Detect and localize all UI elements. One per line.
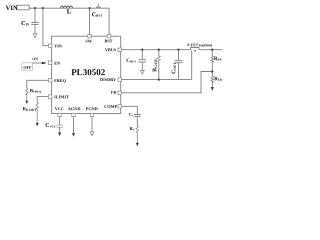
EN input arrow	[42, 62, 47, 65]
ground CBUS hollow arrow	[140, 70, 144, 74]
capacitor CC	[134, 114, 141, 116]
resistor RFB2	[211, 76, 214, 83]
pin VIN	[49, 44, 52, 47]
junction dots	[34, 7, 214, 81]
pin AGND	[72, 113, 75, 116]
capacitor CIN	[31, 21, 38, 23]
wire AGND branch	[73, 117, 75, 134]
ground PGND hollow arrow	[90, 132, 94, 136]
wire top rail	[29, 8, 109, 34]
ground CVCC filled arrow	[58, 133, 61, 137]
pin SW	[88, 35, 91, 38]
wire gate riser	[191, 50, 193, 79]
VIN terminal tag	[16, 5, 29, 10]
svg-text:DISDRV: DISDRV	[100, 77, 117, 82]
pin COMP	[118, 105, 121, 108]
svg-text:PL30502: PL30502	[71, 67, 106, 77]
svg-text:ILIMIT: ILIMIT	[54, 94, 69, 99]
svg-text:ON: ON	[32, 57, 38, 61]
wire CIN branch	[34, 8, 36, 22]
ground RFB2 filled arrow	[211, 87, 214, 91]
wire VIN pin branch	[43, 8, 49, 46]
svg-text:CVCC: CVCC	[45, 123, 56, 129]
svg-text:CBUS: CBUS	[126, 58, 136, 64]
wire FREQ	[27, 80, 49, 88]
ground RFREQ filled arrow	[25, 101, 28, 104]
svg-text:VIN: VIN	[6, 5, 18, 12]
pin FB	[118, 91, 121, 94]
wire DISDRV line	[121, 79, 191, 81]
OFF terminal box	[22, 63, 33, 70]
resistor RFREQ	[26, 88, 28, 100]
capacitor CBUS	[139, 59, 147, 61]
pin VBUS	[118, 48, 121, 51]
wire EN	[32, 62, 41, 64]
pin ILIMIT	[49, 95, 52, 98]
pin squares	[49, 35, 122, 117]
svg-text:SW: SW	[85, 38, 92, 43]
resistor RFB1	[211, 56, 214, 63]
ground RILIMIT filled arrow	[36, 123, 39, 127]
wire ILIMIT	[37, 97, 48, 103]
wire COUT branch	[178, 50, 180, 60]
ground RC filled arrow	[136, 143, 139, 147]
svg-text:RILIMIT: RILIMIT	[23, 106, 37, 112]
svg-text:VIN: VIN	[54, 43, 63, 48]
pin BST	[107, 35, 110, 38]
svg-text:COUT: COUT	[171, 62, 177, 74]
svg-text:RGATE: RGATE	[152, 58, 158, 72]
svg-text:EN: EN	[54, 60, 61, 65]
capacitor COUT	[175, 60, 183, 62]
svg-text:BST: BST	[104, 38, 112, 43]
svg-text:COMP: COMP	[104, 104, 117, 109]
wire RGATE branch	[158, 50, 160, 56]
wire SW drop	[89, 8, 91, 34]
wire COMP trace	[121, 106, 137, 114]
node COUT top	[177, 49, 179, 51]
node CIN	[34, 7, 36, 9]
wire CBUS branch	[141, 50, 143, 60]
capacitor CVCC	[56, 124, 63, 126]
node VIN branch	[42, 7, 44, 9]
wire VBUS rail	[121, 49, 190, 51]
ground AGND filled arrow	[72, 133, 75, 137]
resistor RGATE	[157, 56, 160, 63]
svg-text:VBUS: VBUS	[105, 47, 117, 52]
svg-text:VCC: VCC	[55, 106, 64, 111]
wire VCC branch	[59, 117, 61, 125]
inductor L	[61, 6, 73, 8]
node SW	[88, 7, 90, 9]
node RFB top	[211, 49, 213, 51]
wire PGND branch	[91, 117, 93, 132]
pin FREQ	[49, 79, 52, 82]
svg-text:RFREQ: RFREQ	[30, 88, 42, 94]
P-FET body	[191, 48, 199, 50]
wire RFB column	[211, 50, 213, 56]
pin PGND	[90, 113, 93, 116]
svg-text:FREQ: FREQ	[54, 78, 67, 83]
node RGATE bottom	[158, 79, 160, 81]
svg-text:PGND: PGND	[86, 106, 98, 111]
pin name labels	[54, 38, 117, 111]
svg-text:AGND: AGND	[68, 106, 81, 111]
svg-text:FB: FB	[111, 90, 117, 95]
capacitor CBST	[97, 3, 99, 6]
P-FET gate mark	[194, 50, 196, 52]
pin EN	[49, 61, 52, 64]
svg-text:RFB2: RFB2	[214, 76, 222, 82]
wire FB trace	[121, 72, 212, 93]
node CBUS	[141, 49, 143, 51]
resistor RC	[136, 126, 138, 143]
node FB divider	[211, 70, 213, 72]
IC body	[52, 36, 121, 113]
svg-text:RFB1: RFB1	[214, 56, 222, 62]
pin VCC	[58, 113, 61, 116]
svg-text:P-FET (option): P-FET (option)	[187, 43, 212, 47]
resistor RILIMIT	[36, 103, 38, 123]
node RGATE top	[158, 49, 160, 51]
svg-text:L: L	[67, 9, 71, 15]
ground CIN hollow arrow	[33, 34, 37, 38]
pin DISDRV	[118, 78, 121, 81]
svg-text:OFF: OFF	[23, 65, 32, 70]
